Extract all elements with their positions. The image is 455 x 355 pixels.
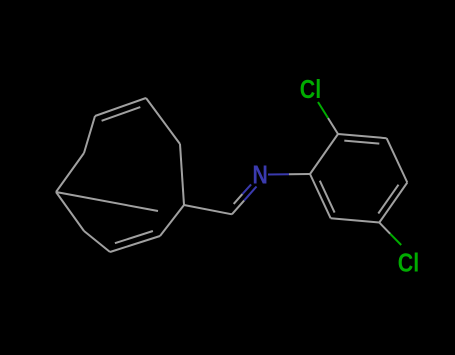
svg-text:Cl: Cl	[398, 249, 419, 278]
svg-text:Cl: Cl	[300, 75, 321, 104]
svg-text:N: N	[252, 161, 267, 190]
